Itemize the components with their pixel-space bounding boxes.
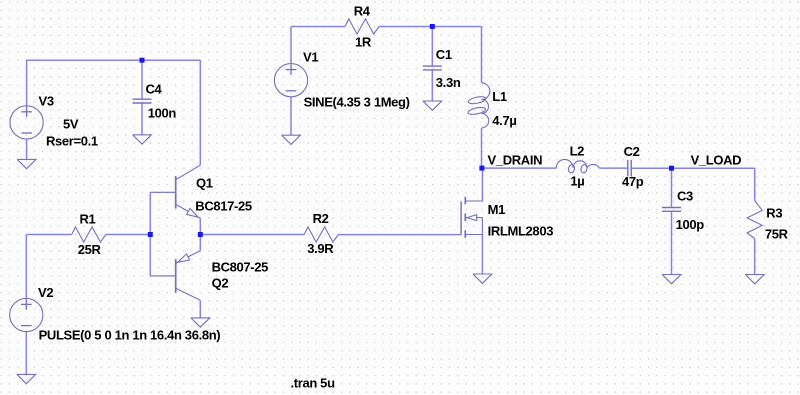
svg-text:IRLML2803: IRLML2803 <box>488 224 554 239</box>
svg-text:C1: C1 <box>436 47 452 62</box>
svg-text:BC817-25: BC817-25 <box>195 199 252 214</box>
svg-text:Q1: Q1 <box>196 176 213 191</box>
svg-text:3.3n: 3.3n <box>436 75 461 90</box>
svg-text:R3: R3 <box>766 206 782 221</box>
svg-text:Rser=0.1: Rser=0.1 <box>46 134 98 149</box>
svg-text:L1: L1 <box>492 89 507 104</box>
svg-text:R4: R4 <box>354 3 371 18</box>
svg-text:C4: C4 <box>146 81 163 96</box>
svg-text:25R: 25R <box>78 242 102 257</box>
svg-text:V2: V2 <box>38 285 53 300</box>
svg-text:100p: 100p <box>676 217 705 232</box>
svg-text:L2: L2 <box>570 143 585 158</box>
svg-text:75R: 75R <box>765 226 789 241</box>
svg-text:V_LOAD: V_LOAD <box>691 153 742 168</box>
svg-text:1R: 1R <box>355 35 372 50</box>
svg-text:V3: V3 <box>39 94 54 109</box>
svg-text:SINE(4.35 3 1Meg): SINE(4.35 3 1Meg) <box>304 95 410 110</box>
svg-text:V1: V1 <box>303 50 318 65</box>
svg-text:R2: R2 <box>313 211 329 226</box>
svg-text:5V: 5V <box>63 116 79 131</box>
svg-text:3.9R: 3.9R <box>307 241 334 256</box>
svg-text:C2: C2 <box>624 144 640 159</box>
svg-text:C3: C3 <box>677 189 693 204</box>
svg-text:R1: R1 <box>80 212 96 227</box>
svg-text:47p: 47p <box>622 174 644 189</box>
svg-text:M1: M1 <box>488 202 505 217</box>
svg-text:.tran 5u: .tran 5u <box>291 375 336 390</box>
svg-text:PULSE(0 5 0 1n 1n 16.4n 36.8n): PULSE(0 5 0 1n 1n 16.4n 36.8n) <box>39 328 221 343</box>
svg-text:100n: 100n <box>148 106 177 121</box>
svg-text:V_DRAIN: V_DRAIN <box>488 153 543 168</box>
svg-text:Q2: Q2 <box>212 276 229 291</box>
svg-text:1µ: 1µ <box>570 174 584 189</box>
svg-text:BC807-25: BC807-25 <box>212 260 269 275</box>
svg-text:4.7µ: 4.7µ <box>492 113 516 128</box>
